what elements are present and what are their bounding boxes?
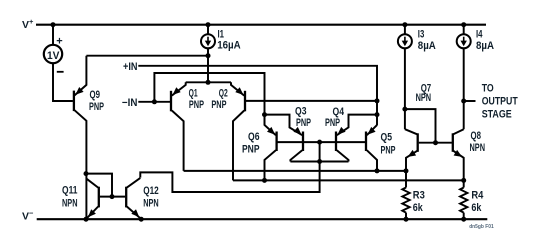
- resistor R4 6k: [460, 180, 483, 219]
- wire Q11 Q12 base line: [100, 196, 125, 198]
- resistor R3 6k: [402, 171, 425, 219]
- svg-text:dn5gb F01: dn5gb F01: [469, 224, 494, 230]
- wire 1V source bottom lead to Q9 base: [53, 63, 73, 101]
- voltage source 1V: [44, 45, 62, 63]
- svg-text:PNP: PNP: [325, 117, 340, 129]
- transistor Q2 PNP: [211, 82, 245, 180]
- node I1 / Q9 emitter junction: [206, 53, 211, 58]
- wire I4 to Q8 collector: [463, 48, 465, 129]
- node Q7 base tie junction: [402, 107, 407, 112]
- node R4 bottom junction: [461, 217, 466, 222]
- transistor Q5 PNP: [366, 125, 396, 171]
- node Q12 emitter on V- rail: [139, 217, 144, 222]
- wire Q9 emitter to I1 output: [86, 55, 208, 57]
- wire Q3 Q4 collector bus: [290, 161, 348, 163]
- node Q11 collector junction: [84, 171, 89, 176]
- svg-text:Q12: Q12: [143, 185, 159, 197]
- wire V- rail: [37, 218, 488, 220]
- node collector bus junction: [317, 159, 322, 164]
- wire I3 top lead: [404, 25, 406, 35]
- svg-text:NPN: NPN: [470, 142, 486, 154]
- node output takeoff junction: [461, 99, 466, 104]
- svg-text:−IN: −IN: [122, 97, 137, 109]
- svg-text:Q1: Q1: [189, 87, 198, 99]
- svg-text:Q11: Q11: [62, 185, 78, 197]
- transistor Q3 PNP: [265, 105, 312, 161]
- svg-text:PNP: PNP: [296, 117, 311, 129]
- svg-text:Q6: Q6: [248, 131, 260, 143]
- wire I3 to Q7 collector: [404, 48, 406, 129]
- node +IN / Q4 Q5 emitter junction: [375, 112, 380, 117]
- svg-text:Q8: Q8: [471, 130, 482, 142]
- svg-text:8µA: 8µA: [418, 40, 436, 52]
- svg-text:NPN: NPN: [416, 92, 432, 104]
- node mirror base junction: [110, 194, 115, 199]
- node quad base junction: [317, 140, 322, 145]
- node +IN / Q2 base junction: [375, 98, 380, 103]
- svg-text:16µA: 16µA: [217, 40, 241, 52]
- svg-text:OUTPUT: OUTPUT: [482, 95, 518, 107]
- label +IN: [123, 61, 138, 73]
- transistor Q7 NPN: [405, 83, 436, 171]
- wire second rail to R4: [233, 179, 464, 181]
- svg-text:1V: 1V: [47, 50, 60, 62]
- node Q7 Q8 base junction: [433, 140, 438, 145]
- label -IN: [122, 97, 137, 109]
- wire I1 top lead: [207, 25, 209, 35]
- node R4 top junction: [461, 178, 466, 183]
- svg-text:I3: I3: [418, 28, 425, 40]
- label V+: [22, 17, 34, 31]
- transistor Q6 PNP: [242, 115, 277, 181]
- svg-text:I4: I4: [476, 28, 483, 40]
- node V+ rail / 1V source junction: [51, 22, 56, 27]
- transistor Q1 PNP: [171, 82, 204, 171]
- svg-text:PNP: PNP: [89, 101, 104, 113]
- node V+ rail / I1 junction: [206, 22, 211, 27]
- svg-text:R4: R4: [471, 189, 483, 201]
- svg-text:6k: 6k: [471, 202, 481, 214]
- transistor Q4 PNP: [325, 106, 377, 162]
- svg-text:NPN: NPN: [62, 198, 78, 210]
- label - of 1V source: [57, 71, 64, 73]
- label V-: [22, 208, 34, 222]
- label I4: [476, 28, 494, 51]
- wire Q7 base tie: [405, 109, 436, 143]
- svg-text:+IN: +IN: [123, 61, 138, 73]
- node R3 top junction: [404, 168, 409, 173]
- node V+ rail / I3 junction: [402, 22, 407, 27]
- wire V+ rail: [36, 24, 486, 26]
- node -IN junction: [152, 99, 157, 104]
- wire Q2 base to +IN node: [246, 100, 377, 102]
- svg-text:STAGE: STAGE: [482, 108, 512, 120]
- label figure credit: [469, 224, 494, 230]
- transistor Q11 NPN: [62, 178, 99, 218]
- svg-text:+: +: [56, 36, 62, 48]
- wire mirror base to Q11 collector: [86, 174, 112, 197]
- svg-text:Q9: Q9: [90, 89, 101, 101]
- svg-text:I1: I1: [218, 28, 225, 40]
- wire +IN to Q2 base and quad: [138, 66, 377, 125]
- current source I4: [457, 34, 471, 48]
- wire output stub: [464, 100, 476, 102]
- wire quad base to Q12 collector: [140, 142, 319, 192]
- svg-text:Q3: Q3: [295, 105, 307, 117]
- wire Q3 Q4 Q5 Q6 common base line: [277, 141, 366, 143]
- wire Q1 Q2 emitter rail: [186, 81, 231, 83]
- label TO OUTPUT STAGE: [482, 82, 518, 120]
- wire -IN to Q1 base: [138, 101, 170, 103]
- svg-text:Q2: Q2: [219, 87, 228, 99]
- svg-text:R3: R3: [413, 189, 425, 201]
- label I1: [217, 28, 241, 51]
- label I3: [418, 28, 436, 51]
- svg-text:PNP: PNP: [242, 144, 260, 156]
- svg-text:PNP: PNP: [189, 99, 204, 111]
- wire 1V source top lead: [52, 25, 54, 45]
- node Q6 collector junction: [262, 178, 267, 183]
- wire -IN to Q6 Q3 emitters: [154, 73, 264, 125]
- wire first-stage rail to R3: [184, 170, 406, 172]
- svg-text:Q4: Q4: [333, 106, 345, 118]
- svg-text:PNP: PNP: [381, 144, 396, 156]
- node tail current junction: [206, 80, 211, 85]
- node R3 bottom junction: [404, 217, 409, 222]
- node Q5 collector junction: [375, 168, 380, 173]
- wire I1 bottom lead to input pair tail: [207, 48, 209, 82]
- label + of 1V source: [56, 36, 62, 48]
- transistor Q12 NPN: [126, 178, 159, 219]
- svg-text:6k: 6k: [413, 202, 423, 214]
- svg-text:PNP: PNP: [211, 99, 226, 111]
- node Q11 emitter on V- rail: [84, 217, 89, 222]
- current source I3: [398, 34, 412, 48]
- node V+ rail / I4 junction: [461, 22, 466, 27]
- transistor Q8 NPN: [436, 129, 486, 180]
- svg-text:8µA: 8µA: [476, 40, 494, 52]
- svg-text:TO: TO: [482, 82, 494, 94]
- wire I4 top lead: [463, 25, 465, 35]
- node -IN / Q6 Q3 emitter junction: [262, 112, 267, 117]
- svg-text:Q5: Q5: [381, 131, 393, 143]
- current source I1: [201, 34, 215, 48]
- transistor Q9 PNP: [74, 56, 104, 220]
- svg-text:NPN: NPN: [143, 198, 159, 210]
